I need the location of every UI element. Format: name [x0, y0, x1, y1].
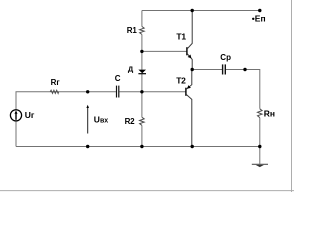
- node: diode / R2 / T2 base: [140, 90, 143, 93]
- transistor T1: [187, 11, 192, 70]
- svg-text:Rг: Rг: [51, 78, 61, 87]
- node: T1 collector / rail: [191, 9, 194, 12]
- wire: input line from C to T2 base: [119, 91, 186, 93]
- wire: top supply rail: [142, 10, 260, 12]
- node: input return on bottom rail: [86, 145, 89, 148]
- resistor Rn (load): [258, 109, 263, 118]
- svg-text:Cр: Cр: [220, 53, 231, 62]
- diode D: [138, 70, 146, 74]
- table cell borders (decorative): [291, 0, 293, 192]
- ground: [252, 164, 268, 167]
- svg-text:Д: Д: [128, 64, 134, 73]
- resistor Rg (source): [50, 90, 58, 93]
- wire: Cp to load corner: [226, 70, 260, 109]
- node: T2 collector bottom: [191, 145, 194, 148]
- svg-text:R1: R1: [127, 26, 138, 35]
- wire: T1 base lead: [142, 50, 187, 52]
- node: En terminal: [258, 9, 261, 12]
- wire: ground lead: [259, 147, 261, 164]
- svg-text:T1: T1: [176, 32, 186, 42]
- svg-text:R2: R2: [125, 117, 136, 126]
- wire: input line left segment: [15, 121, 17, 146]
- wire: R2 bottom lead to bottom rail: [141, 125, 143, 146]
- svg-text:•Eп: •Eп: [252, 13, 266, 23]
- svg-text:T2: T2: [176, 75, 186, 85]
- node: after Rg: [86, 90, 89, 93]
- resistor R1: [140, 27, 145, 35]
- wire: R1 bottom to base node: [141, 34, 143, 69]
- capacitor Cp: [223, 64, 226, 74]
- transistor T2: [186, 70, 192, 147]
- svg-text:Rн: Rн: [264, 108, 275, 118]
- node: rail / ground: [258, 145, 261, 148]
- wire: diode cathode to input node: [141, 74, 143, 118]
- wire: Rn bottom lead: [259, 118, 261, 147]
- resistor R2: [140, 117, 145, 125]
- source Ug (generator): [10, 110, 21, 121]
- node: after Cp: [243, 68, 246, 71]
- wire: R1 top lead from rail: [141, 11, 143, 27]
- node: R2 bottom: [140, 145, 143, 148]
- node: R1 / diode / T1 base: [140, 50, 143, 53]
- capacitor C: [117, 86, 119, 98]
- wire: output node to Cp: [192, 69, 222, 71]
- arrow Uvx (input voltage): [86, 105, 89, 134]
- wire: bottom rail: [16, 146, 260, 148]
- node: output (emitters): [191, 68, 194, 71]
- svg-text:C: C: [115, 74, 121, 83]
- svg-text:Uг: Uг: [25, 110, 35, 120]
